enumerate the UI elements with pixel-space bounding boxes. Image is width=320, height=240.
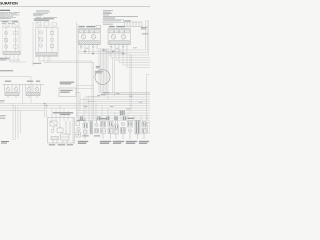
svg-text:GURATION: GURATION (0, 1, 18, 5)
